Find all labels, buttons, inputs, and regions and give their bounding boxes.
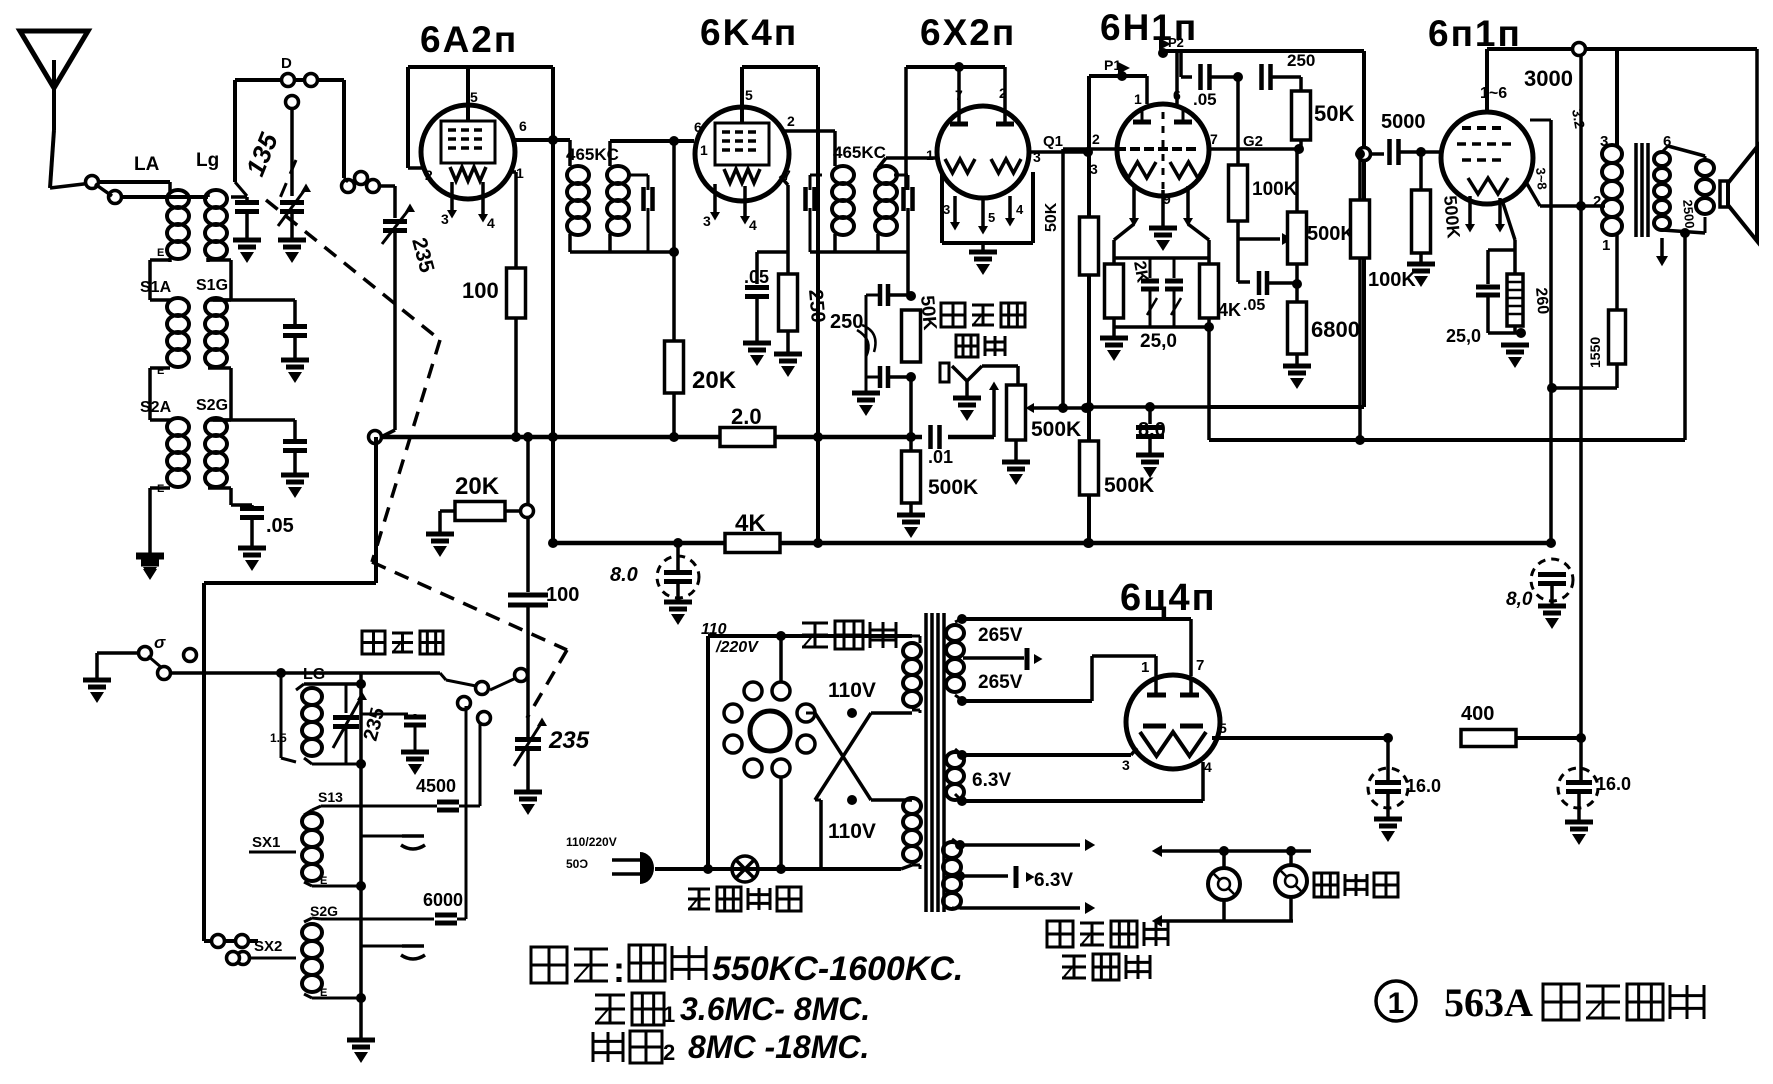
svg-text:1550: 1550 bbox=[1587, 337, 1603, 368]
svg-text:P1: P1 bbox=[1104, 57, 1121, 73]
svg-text:6: 6 bbox=[1173, 87, 1181, 103]
svg-text:.05: .05 bbox=[266, 515, 294, 537]
svg-text:4: 4 bbox=[1204, 759, 1212, 775]
svg-text:8,0: 8,0 bbox=[1506, 589, 1533, 610]
svg-text:P2: P2 bbox=[1168, 35, 1184, 50]
svg-text:.01: .01 bbox=[928, 447, 953, 467]
svg-text:7: 7 bbox=[1210, 131, 1218, 147]
svg-text:6800: 6800 bbox=[1311, 317, 1360, 342]
svg-text:5000: 5000 bbox=[1381, 111, 1426, 133]
svg-text:1: 1 bbox=[1134, 91, 1142, 107]
svg-text:5: 5 bbox=[745, 87, 753, 103]
svg-text:250: 250 bbox=[1287, 51, 1315, 70]
svg-text:3: 3 bbox=[1600, 133, 1608, 150]
svg-text:5: 5 bbox=[1219, 720, 1227, 736]
svg-text:3: 3 bbox=[703, 213, 711, 229]
svg-text:50K: 50K bbox=[1043, 202, 1060, 232]
svg-text:3000: 3000 bbox=[1524, 66, 1573, 91]
svg-text:4K: 4K bbox=[1218, 300, 1241, 320]
svg-text:4500: 4500 bbox=[416, 776, 456, 796]
svg-text:400: 400 bbox=[1461, 703, 1494, 725]
svg-text:.05: .05 bbox=[744, 267, 769, 287]
svg-text:265V: 265V bbox=[978, 625, 1023, 646]
svg-text:6000: 6000 bbox=[423, 890, 463, 910]
svg-text:50K: 50K bbox=[1314, 101, 1354, 126]
svg-text:3~8: 3~8 bbox=[1533, 167, 1550, 190]
svg-text:50K: 50K bbox=[916, 295, 940, 332]
svg-text:.05: .05 bbox=[1243, 297, 1265, 314]
svg-text:σ: σ bbox=[154, 633, 166, 652]
svg-text:265V: 265V bbox=[978, 672, 1023, 693]
svg-text:3.2: 3.2 bbox=[1569, 108, 1588, 130]
svg-text:110/220V: 110/220V bbox=[566, 835, 617, 849]
svg-text:6A2п: 6A2п bbox=[420, 19, 518, 60]
svg-text:6: 6 bbox=[519, 118, 527, 134]
svg-text:2: 2 bbox=[1092, 131, 1100, 147]
svg-text:/220V: /220V bbox=[715, 639, 759, 656]
svg-text:1~6: 1~6 bbox=[1480, 85, 1507, 102]
svg-text:100: 100 bbox=[546, 584, 579, 606]
svg-text:1: 1 bbox=[700, 142, 708, 158]
svg-text:SX1: SX1 bbox=[252, 834, 280, 851]
svg-text:500K: 500K bbox=[1307, 223, 1355, 245]
svg-text:110: 110 bbox=[701, 621, 727, 638]
svg-text:SX2: SX2 bbox=[254, 938, 282, 955]
svg-text:25,0: 25,0 bbox=[1140, 331, 1177, 352]
svg-text:110V: 110V bbox=[828, 679, 876, 702]
svg-text:S1A: S1A bbox=[140, 279, 172, 296]
svg-text:500K: 500K bbox=[928, 476, 978, 499]
svg-text:3.6MC- 8MC.: 3.6MC- 8MC. bbox=[680, 991, 870, 1027]
svg-text:235: 235 bbox=[548, 727, 590, 754]
svg-text:1: 1 bbox=[1388, 987, 1405, 1020]
svg-text:6X2п: 6X2п bbox=[920, 12, 1016, 53]
svg-text:1.5: 1.5 bbox=[270, 731, 287, 745]
svg-text:20K: 20K bbox=[455, 473, 500, 500]
svg-text:1: 1 bbox=[1141, 659, 1149, 676]
svg-text:100: 100 bbox=[462, 278, 499, 303]
svg-text:25,0: 25,0 bbox=[1446, 326, 1481, 346]
svg-text:3: 3 bbox=[1122, 757, 1130, 773]
svg-text:4: 4 bbox=[1016, 202, 1024, 217]
svg-text:260: 260 bbox=[1532, 287, 1551, 315]
svg-text:3: 3 bbox=[943, 202, 950, 217]
svg-text:2: 2 bbox=[1593, 193, 1601, 210]
svg-text:S1G: S1G bbox=[196, 277, 228, 294]
svg-text:100K: 100K bbox=[1252, 179, 1298, 200]
svg-text:LG: LG bbox=[303, 666, 325, 683]
svg-text:2.0: 2.0 bbox=[731, 404, 762, 429]
svg-text:550KC-1600KC.: 550KC-1600KC. bbox=[712, 950, 963, 988]
svg-text:6.3V: 6.3V bbox=[1034, 870, 1073, 891]
svg-text:S13: S13 bbox=[318, 789, 343, 805]
svg-text:6.3V: 6.3V bbox=[972, 770, 1011, 791]
svg-text:6K4п: 6K4п bbox=[700, 12, 798, 53]
svg-text:5: 5 bbox=[470, 89, 478, 105]
svg-text:5: 5 bbox=[988, 210, 995, 225]
svg-text:.05: .05 bbox=[1193, 90, 1217, 109]
svg-text:S2G: S2G bbox=[310, 903, 338, 919]
svg-text:2: 2 bbox=[425, 167, 433, 183]
svg-text:16.0: 16.0 bbox=[1596, 774, 1631, 794]
svg-text:E: E bbox=[157, 247, 164, 259]
svg-text:1: 1 bbox=[926, 147, 934, 163]
svg-text::: : bbox=[613, 949, 625, 990]
svg-text:465KC: 465KC bbox=[833, 143, 886, 162]
svg-text:250: 250 bbox=[830, 311, 863, 333]
svg-text:6ц4п: 6ц4п bbox=[1120, 577, 1217, 619]
svg-text:100K: 100K bbox=[1368, 269, 1416, 291]
svg-text:4K: 4K bbox=[735, 510, 766, 537]
svg-text:D: D bbox=[281, 55, 292, 72]
svg-text:3: 3 bbox=[1090, 161, 1098, 177]
svg-text:500K: 500K bbox=[1104, 474, 1154, 497]
svg-text:16.0: 16.0 bbox=[1406, 776, 1441, 796]
svg-text:500K: 500K bbox=[1440, 195, 1464, 240]
svg-text:8.0: 8.0 bbox=[610, 564, 638, 586]
svg-text:500K: 500K bbox=[1031, 418, 1081, 441]
svg-text:S2G: S2G bbox=[196, 397, 228, 414]
svg-text:Lg: Lg bbox=[196, 150, 219, 171]
svg-text:4: 4 bbox=[487, 215, 495, 231]
svg-text:1: 1 bbox=[663, 1002, 675, 1027]
svg-text:4: 4 bbox=[749, 217, 757, 233]
svg-text:G2: G2 bbox=[1243, 133, 1263, 150]
svg-text:50Ɔ: 50Ɔ bbox=[566, 857, 588, 871]
svg-text:2: 2 bbox=[787, 113, 795, 129]
svg-text:250: 250 bbox=[804, 289, 829, 324]
svg-text:S2A: S2A bbox=[140, 399, 172, 416]
svg-text:110V: 110V bbox=[828, 820, 876, 843]
svg-text:563A: 563A bbox=[1444, 980, 1533, 1025]
svg-text:20K: 20K bbox=[692, 367, 737, 394]
svg-text:8MC -18MC.: 8MC -18MC. bbox=[688, 1029, 869, 1065]
svg-text:2: 2 bbox=[663, 1040, 675, 1065]
svg-text:6: 6 bbox=[694, 119, 702, 135]
svg-text:Q1: Q1 bbox=[1043, 133, 1063, 150]
svg-text:3: 3 bbox=[441, 211, 449, 227]
svg-text:7: 7 bbox=[1196, 657, 1204, 674]
svg-text:LA: LA bbox=[134, 154, 160, 175]
svg-text:1: 1 bbox=[1602, 237, 1610, 254]
